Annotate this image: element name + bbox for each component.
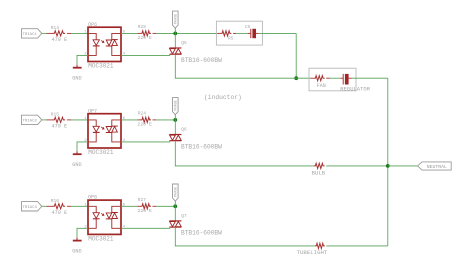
svg-text:4: 4 xyxy=(123,139,126,143)
svg-text:BTB16-600BW: BTB16-600BW xyxy=(181,143,222,150)
ground GND xyxy=(72,65,81,82)
node junction phase row 1 xyxy=(173,32,177,36)
svg-text:GND: GND xyxy=(72,162,81,168)
wire flag to node xyxy=(174,201,176,206)
svg-text:1: 1 xyxy=(84,31,87,35)
wire R5 to C5 xyxy=(236,32,248,34)
wire Q5 to output row 1 xyxy=(174,54,177,78)
svg-text:PHASE: PHASE xyxy=(174,187,178,197)
svg-text:PHASE: PHASE xyxy=(174,14,178,24)
wire node to snubber box xyxy=(177,32,219,34)
svg-text:C5: C5 xyxy=(245,24,251,30)
wire Q7 to output row 3 xyxy=(174,227,177,246)
svg-text:TRIAC1: TRIAC1 xyxy=(22,33,37,37)
svg-text:R27: R27 xyxy=(138,197,146,203)
svg-text:6: 6 xyxy=(123,31,126,35)
wire FAN to REGULATOR xyxy=(330,77,341,79)
wire TUBELIGHT to right bus xyxy=(326,245,388,247)
resistor R28 xyxy=(138,24,157,41)
optocoupler OP8 MOC3021 xyxy=(88,195,121,243)
wire flag to node xyxy=(174,115,176,120)
net flag PHASE row 3 xyxy=(173,184,179,201)
wire resistor to node xyxy=(156,119,175,121)
wire pin 2 to ground xyxy=(77,228,88,237)
wire pin 6 to resistor R27 xyxy=(121,205,138,207)
svg-text:220 E: 220 E xyxy=(138,35,153,41)
optocoupler OP7 MOC3021 xyxy=(88,108,121,156)
svg-text:4: 4 xyxy=(123,225,126,229)
net flag PHASE row 1 xyxy=(173,11,179,28)
wire resistor to optocoupler pin 1 xyxy=(71,205,88,207)
wire pin 2 to ground xyxy=(77,142,88,151)
ground GND xyxy=(72,238,81,255)
wire Q6 to output row 2 xyxy=(174,141,177,166)
svg-text:470 E: 470 E xyxy=(52,124,68,130)
optocoupler OP6 MOC3021 xyxy=(88,22,121,70)
wire resistor to node xyxy=(156,32,175,34)
wire output row 3 to TUBELIGHT xyxy=(176,245,315,247)
capacitor C5 xyxy=(245,24,259,38)
wire corner down to output node xyxy=(295,33,297,78)
wire resistor to optocoupler pin 1 xyxy=(71,119,88,121)
svg-text:OP7: OP7 xyxy=(88,108,97,114)
resistor R27 xyxy=(138,197,157,214)
net flag PHASE row 2 xyxy=(173,98,179,115)
svg-text:NEUTRAL: NEUTRAL xyxy=(427,164,447,170)
svg-text:6: 6 xyxy=(123,117,126,121)
resistor R5 xyxy=(218,31,237,42)
ground GND xyxy=(72,151,81,168)
node junction phase row 2 xyxy=(173,118,177,122)
wire node down to triac xyxy=(174,33,176,47)
net flag TRIAC2 xyxy=(22,115,42,124)
snubber box outline xyxy=(216,21,262,45)
wire node down to triac xyxy=(174,206,176,220)
wire gate pin 4 to Q6 xyxy=(121,141,170,143)
net flag NEUTRAL xyxy=(418,162,452,170)
svg-text:BULB: BULB xyxy=(312,169,326,176)
wire right bus vertical xyxy=(387,78,389,246)
capacitor REGULATOR xyxy=(340,74,370,93)
wire resistor to node xyxy=(156,205,175,207)
net flag TRIAC1 xyxy=(22,29,42,38)
resistor R24 xyxy=(138,111,157,128)
svg-text:GND: GND xyxy=(72,249,81,255)
wire output row 1 to load box xyxy=(176,77,311,79)
svg-text:OP8: OP8 xyxy=(88,195,97,201)
wire flag to resistor xyxy=(42,32,47,34)
wire snubber to corner xyxy=(259,32,297,34)
svg-text:BTB16-600BW: BTB16-600BW xyxy=(181,230,222,237)
wire node down to triac xyxy=(174,120,176,134)
wire flag to resistor xyxy=(42,119,47,121)
svg-text:Q6: Q6 xyxy=(181,127,187,133)
svg-text:2: 2 xyxy=(84,53,87,57)
wire pin 2 to ground xyxy=(77,55,88,64)
resistor R16 xyxy=(47,198,72,216)
transistor Q6 triac xyxy=(169,127,222,151)
svg-text:Q7: Q7 xyxy=(181,213,187,219)
wire pin 6 to resistor R28 xyxy=(121,32,138,34)
svg-text:FAN: FAN xyxy=(317,83,326,89)
svg-text:4: 4 xyxy=(123,53,126,57)
svg-text:R5: R5 xyxy=(228,36,234,42)
resistor BULB xyxy=(312,163,326,176)
wire flag to node xyxy=(174,28,176,33)
net flag TRIAC3 xyxy=(22,202,42,211)
svg-text:2: 2 xyxy=(84,225,87,229)
svg-text:(inductor): (inductor) xyxy=(204,94,242,101)
svg-text:6: 6 xyxy=(123,203,126,207)
svg-text:R14: R14 xyxy=(51,25,59,31)
svg-text:REGULATOR: REGULATOR xyxy=(340,85,370,92)
svg-text:TRIAC3: TRIAC3 xyxy=(22,206,37,210)
transistor Q5 triac xyxy=(169,40,222,64)
wire pin 6 to resistor R24 xyxy=(121,119,138,121)
node junction snubber/output xyxy=(294,76,298,80)
resistor R14 xyxy=(47,25,72,43)
load box FAN/REGULATOR outline xyxy=(309,68,356,91)
svg-text:TRIAC2: TRIAC2 xyxy=(22,120,37,124)
wire node to NEUTRAL flag xyxy=(388,165,418,167)
wire output row 2 to BULB xyxy=(176,165,314,167)
resistor TUBELIGHT xyxy=(297,243,328,256)
wire load box to right bus xyxy=(352,77,388,79)
svg-text:470 E: 470 E xyxy=(52,210,68,216)
wire BULB to right bus xyxy=(326,165,388,167)
svg-text:MOC3021: MOC3021 xyxy=(88,235,114,242)
wire gate pin 4 to Q5 xyxy=(121,54,170,56)
wire flag to resistor xyxy=(42,205,47,207)
svg-text:2: 2 xyxy=(84,139,87,143)
resistor FAN xyxy=(311,76,330,90)
wire gate pin 4 to Q7 xyxy=(121,227,170,229)
svg-text:BTB16-600BW: BTB16-600BW xyxy=(181,57,222,64)
svg-text:R16: R16 xyxy=(51,198,59,204)
svg-text:1: 1 xyxy=(84,203,87,207)
svg-text:220 E: 220 E xyxy=(138,122,153,128)
svg-text:GND: GND xyxy=(72,76,81,82)
svg-text:Q5: Q5 xyxy=(181,40,187,46)
svg-text:OP6: OP6 xyxy=(88,22,97,28)
svg-text:R28: R28 xyxy=(138,24,146,30)
resistor R15 xyxy=(47,112,72,130)
svg-text:1: 1 xyxy=(84,117,87,121)
transistor Q7 triac xyxy=(169,213,222,237)
node junction NEUTRAL xyxy=(386,164,390,168)
svg-text:220 E: 220 E xyxy=(138,208,153,214)
svg-text:PHASE: PHASE xyxy=(174,100,178,110)
svg-text:R15: R15 xyxy=(51,112,59,118)
svg-text:470 E: 470 E xyxy=(52,37,68,43)
wire resistor to optocoupler pin 1 xyxy=(71,32,88,34)
svg-text:TUBELIGHT: TUBELIGHT xyxy=(297,249,328,256)
svg-text:R24: R24 xyxy=(138,111,146,117)
svg-text:MOC3021: MOC3021 xyxy=(88,149,114,156)
node junction phase row 3 xyxy=(173,204,177,208)
svg-text:MOC3021: MOC3021 xyxy=(88,63,114,70)
